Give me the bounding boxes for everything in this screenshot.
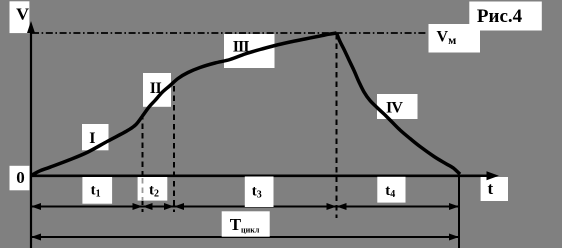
dimension line t4 segment — [337, 206, 460, 208]
t2 right arrow — [164, 203, 174, 210]
dimension line t2 segment — [143, 206, 175, 208]
t1 right arrow — [133, 203, 143, 210]
label box T cycle — [222, 211, 270, 236]
label box t2 — [138, 177, 168, 201]
label box Vm — [429, 24, 481, 53]
svg-text:I: I — [89, 130, 95, 147]
label box II — [143, 73, 171, 107]
dashed vertical at t1/t2 boundary — [142, 114, 144, 212]
dash-dot level line Vm — [32, 32, 428, 34]
svg-text:V: V — [16, 5, 30, 24]
x axis arrowhead — [487, 171, 499, 180]
label box Ris.4 caption — [469, 2, 542, 31]
svg-text:0: 0 — [16, 168, 25, 187]
curve rising part phases I II III — [31, 33, 337, 176]
dashed vertical at t2/t3 boundary — [173, 86, 175, 212]
dimension line t1 segment — [31, 206, 143, 208]
label box 0 origin — [10, 166, 30, 191]
T right arrow — [449, 234, 459, 241]
label box IV — [377, 94, 418, 119]
svg-text:t: t — [488, 179, 494, 198]
right boundary vertical line — [458, 175, 460, 248]
label box V axis — [10, 1, 30, 33]
label box III — [224, 34, 275, 68]
svg-text:Рис.4: Рис.4 — [477, 6, 523, 27]
faint dashed line over t2 box — [142, 178, 144, 200]
dashed vertical at peak t3/t4 boundary — [336, 34, 338, 218]
svg-text:IV: IV — [386, 99, 403, 116]
label box t3 — [245, 177, 274, 208]
V axis — [30, 30, 32, 248]
t1 left arrow — [31, 203, 41, 210]
label box t1 — [82, 177, 112, 204]
label box t4 — [377, 177, 405, 203]
label box I — [82, 124, 109, 150]
t4 right arrow — [449, 203, 459, 210]
t2 left arrow — [143, 203, 153, 210]
t3 left arrow — [174, 203, 184, 210]
label box t axis — [481, 177, 508, 201]
V axis arrowhead — [27, 21, 35, 33]
x axis t — [30, 175, 490, 178]
dimension line t3 segment — [174, 206, 337, 208]
dimension line T total — [31, 236, 459, 238]
curve falling part phase IV — [337, 33, 461, 174]
t4 left arrow — [337, 203, 347, 210]
T left arrow — [31, 234, 41, 241]
t3 right arrow — [327, 203, 337, 210]
